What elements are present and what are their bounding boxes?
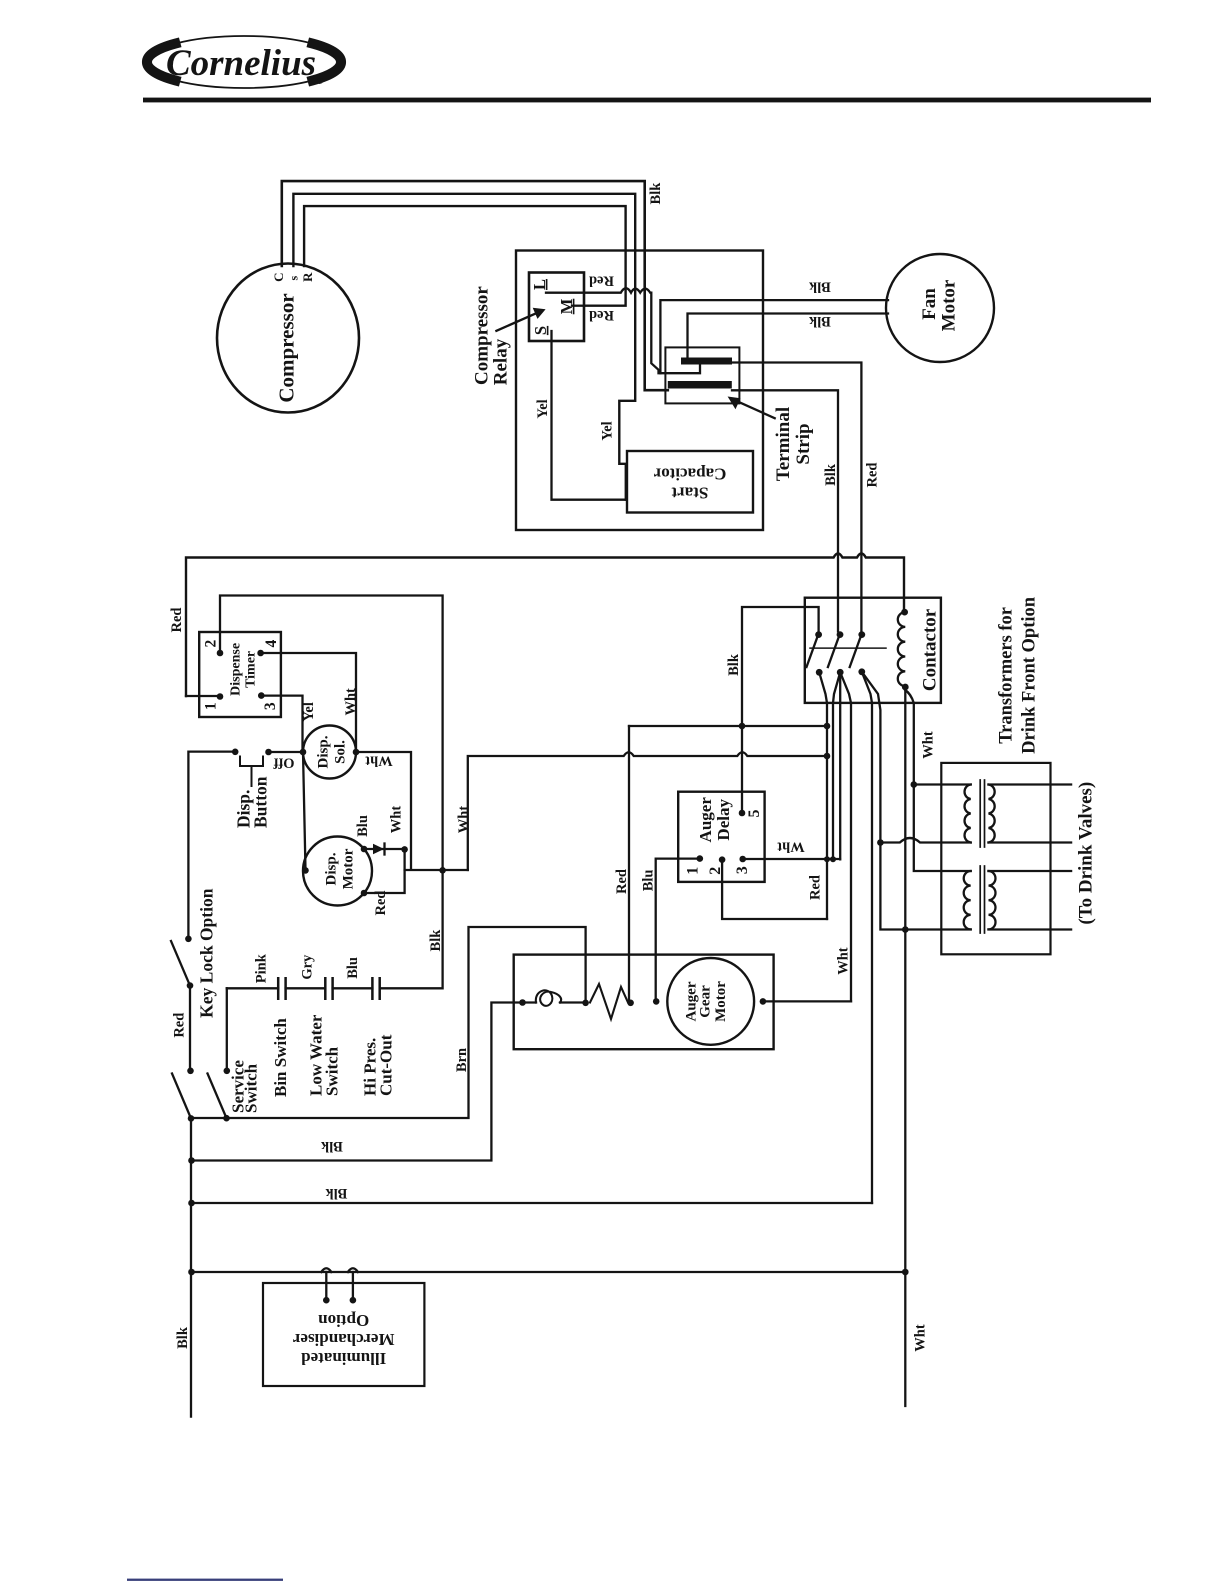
start capacitor box — [627, 451, 753, 513]
svg-text:Capacitor: Capacitor — [653, 464, 726, 483]
wire y726 horizontal — [629, 725, 827, 727]
svg-text:Button: Button — [251, 776, 271, 828]
node auger motor right — [760, 998, 767, 1005]
svg-text:Timer: Timer — [244, 651, 259, 688]
contactor linkage bar — [810, 647, 886, 649]
terminal strip upper bar — [681, 358, 732, 365]
svg-text:Strip: Strip — [793, 423, 814, 464]
wire terminal strip lower bar to contactor (Blk) — [732, 390, 838, 631]
node auger motor left — [653, 998, 660, 1005]
node disp motor bottom right — [361, 890, 368, 897]
node contactor bottom contact 3 — [858, 668, 865, 675]
node contactor bottom contact 1 — [816, 669, 823, 676]
disp sol — [303, 726, 356, 779]
node service switch top — [224, 1068, 231, 1075]
svg-text:Sol.: Sol. — [332, 740, 348, 764]
wire contact3 drop b to transformer2 bottom — [862, 672, 971, 930]
compressor — [217, 264, 359, 413]
svg-text:Yel: Yel — [600, 421, 616, 440]
transformer2 windings and core — [964, 866, 996, 933]
node y726 x827 — [824, 723, 831, 730]
svg-text:Blu: Blu — [345, 957, 361, 979]
node transformer1 top lead — [911, 781, 918, 788]
wire disp button right to sol — [269, 751, 304, 753]
switch chain wire with capacitor gaps — [227, 987, 373, 989]
svg-text:3: 3 — [734, 866, 751, 874]
wire timer 3 to disp sol left — [261, 696, 302, 752]
wire Wht rail (sol area to contactor) — [468, 752, 827, 870]
svg-text:S: S — [531, 326, 550, 335]
relay M terminal bar — [572, 305, 584, 307]
wire left rail bottom — [190, 1118, 192, 1416]
node lamp stub left — [323, 1297, 330, 1304]
contactor blade 2 — [828, 638, 839, 667]
svg-text:Motor: Motor — [939, 279, 960, 331]
svg-text:2: 2 — [202, 639, 219, 647]
svg-text:Blk: Blk — [726, 653, 742, 676]
left rail key lock switch node top — [185, 936, 192, 943]
svg-text:Terminal: Terminal — [773, 407, 794, 481]
transformers box — [941, 763, 1050, 954]
node left switch top — [187, 1068, 194, 1075]
svg-text:Red: Red — [171, 1013, 187, 1038]
label Start Capacitor — [653, 464, 726, 502]
node timer 3 — [258, 692, 265, 699]
node T2 bottom lead junction — [902, 926, 909, 933]
svg-text:Contactor: Contactor — [920, 608, 941, 691]
node auger delay 5 — [739, 810, 746, 817]
svg-text:Compressor: Compressor — [471, 286, 492, 385]
svg-text:Blk: Blk — [428, 929, 444, 952]
svg-text:Start: Start — [671, 483, 708, 502]
wire fan motor upper (Blk) — [660, 300, 888, 373]
relay outline box — [516, 251, 763, 531]
svg-text:Illuminated: Illuminated — [301, 1349, 387, 1368]
svg-text:Dispense: Dispense — [228, 643, 243, 696]
header rule — [143, 98, 1151, 103]
node timer 4 — [257, 650, 264, 657]
wire compressor R loop to relay M — [304, 206, 625, 306]
wire disp sol left down to disp motor — [303, 752, 306, 870]
svg-text:Cornelius: Cornelius — [166, 43, 316, 84]
node timer 1 — [217, 693, 224, 700]
svg-text:Wht: Wht — [389, 806, 405, 834]
wire left rail middle — [189, 986, 191, 1071]
wire contact2 drop c to auger motor right — [840, 672, 851, 1001]
auger gear motor outline box — [514, 955, 774, 1050]
node left switch bottom — [188, 1115, 195, 1122]
svg-text:Wht: Wht — [913, 1324, 929, 1352]
svg-text:(To Drink Valves): (To Drink Valves) — [1075, 782, 1096, 925]
wire left rail to disp button — [188, 752, 235, 939]
svg-text:Wht: Wht — [456, 806, 472, 834]
svg-text:Red: Red — [373, 891, 389, 916]
svg-text:Yel: Yel — [535, 399, 551, 418]
wire compressor C loop to terminal strip lower bar — [282, 181, 668, 390]
wire timer 4 to disp sol right — [261, 653, 356, 752]
svg-text:5: 5 — [746, 810, 763, 818]
contactor blade 1 — [807, 638, 818, 667]
node service switch bottom — [223, 1115, 230, 1122]
node disp sol left — [300, 749, 307, 756]
node rail y1203 — [188, 1200, 195, 1207]
svg-text:Compressor: Compressor — [274, 293, 298, 402]
transformer2 secondary leads — [989, 871, 1072, 930]
bin switch capacitor — [278, 978, 285, 999]
svg-text:Motor: Motor — [340, 848, 356, 889]
heater zigzag — [590, 984, 628, 1019]
terminal strip lower bar — [668, 381, 732, 389]
svg-text:Motor: Motor — [713, 981, 729, 1022]
svg-text:2: 2 — [707, 867, 724, 875]
svg-text:Wht: Wht — [777, 838, 805, 854]
auger delay box — [678, 792, 764, 882]
key lock blade — [171, 941, 190, 986]
wire auger delay 2 loop (t2) — [722, 860, 827, 919]
svg-text:Drink Front Option: Drink Front Option — [1019, 596, 1039, 754]
node auger delay 2 — [719, 856, 726, 863]
node contactor bottom contact 2 — [837, 669, 844, 676]
svg-text:Disp.: Disp. — [315, 735, 331, 768]
svg-text:®: ® — [317, 76, 324, 86]
node rail y1160 — [188, 1157, 195, 1164]
Cornelius logo swoosh — [147, 36, 341, 88]
svg-text:Blk: Blk — [320, 1138, 343, 1154]
left switch blade — [172, 1074, 191, 1119]
svg-text:Wht: Wht — [365, 752, 393, 768]
contactor coil — [898, 612, 905, 686]
wire fuse middle to Brn to service switch — [192, 927, 586, 1118]
svg-text:Red: Red — [614, 869, 630, 894]
hi pres cut-out capacitor — [372, 978, 379, 999]
svg-text:Blu: Blu — [355, 815, 371, 837]
node motor junction — [401, 846, 408, 853]
node fuse right — [627, 1000, 634, 1007]
node coil top — [901, 609, 908, 616]
svg-text:4: 4 — [263, 639, 280, 647]
wire bottom rail y1203 (Blk) — [192, 1202, 873, 1204]
svg-text:C: C — [271, 273, 286, 282]
svg-text:Yel: Yel — [301, 702, 317, 721]
label Illuminated Merchandiser Option — [292, 1311, 394, 1368]
svg-text:Blk: Blk — [808, 313, 831, 329]
wire bottom rail y1272 — [192, 1271, 906, 1273]
transformer1 windings and core — [965, 780, 995, 847]
svg-text:Switch: Switch — [322, 1046, 341, 1096]
svg-text:Option: Option — [318, 1311, 370, 1330]
transformer1 secondary leads — [989, 785, 1072, 843]
contactor box — [805, 598, 941, 703]
wire auger delay 1 to auger motor left (Blu) — [656, 859, 700, 1002]
node auger delay 1 — [697, 855, 704, 862]
svg-text:Merchandiser: Merchandiser — [292, 1330, 394, 1349]
wire auger motor right — [763, 1000, 851, 1002]
svg-text:Pink: Pink — [254, 953, 270, 983]
svg-text:Red: Red — [169, 608, 185, 633]
auger gear motor — [667, 958, 754, 1045]
svg-text:Key Lock Option: Key Lock Option — [197, 888, 217, 1018]
node junction x442 — [439, 867, 446, 874]
svg-text:Wht: Wht — [921, 731, 937, 759]
node t3 x833 — [830, 856, 836, 862]
contactor blade 3 — [850, 638, 861, 667]
wire contact2 drop b — [839, 672, 841, 859]
footer blue line — [127, 1579, 283, 1581]
terminal strip box — [665, 347, 739, 403]
node disp button left — [232, 749, 239, 756]
svg-text:Disp.: Disp. — [323, 852, 339, 885]
wire contact3 drop a to bottom rail — [862, 672, 872, 1203]
svg-text:Gear: Gear — [698, 985, 714, 1018]
svg-text:Blk: Blk — [648, 182, 664, 205]
thermal protector symbol — [373, 844, 385, 855]
wire auger delay 3 (t3) — [743, 858, 840, 860]
wire compressor S loop to start capacitor — [293, 194, 635, 500]
node contactor top contact 1 — [815, 631, 822, 638]
svg-text:Blk: Blk — [823, 463, 839, 486]
compressor relay box — [529, 273, 584, 342]
wire relay S to start capacitor (Yel) — [552, 331, 627, 500]
node timer 2 — [217, 650, 224, 657]
node disp motor top right — [361, 846, 368, 853]
svg-text:Bin Switch: Bin Switch — [271, 1018, 290, 1097]
svg-text:1: 1 — [202, 702, 219, 710]
svg-text:s: s — [287, 276, 301, 281]
wire Red rail top (left rail to contactor coil) — [186, 554, 904, 697]
wire transformer1 top lead — [914, 783, 971, 785]
svg-text:Brn: Brn — [454, 1048, 470, 1072]
svg-text:1: 1 — [685, 867, 702, 875]
svg-text:Auger: Auger — [696, 797, 715, 843]
svg-text:R: R — [300, 272, 315, 282]
wire fuse left to left rail (Blk) — [192, 1003, 523, 1161]
wire relay L to terminal strip (hops over 3 wires) — [546, 288, 700, 373]
node disp sol right — [353, 749, 360, 756]
wire auger delay 5 riser to contactor left contact — [742, 607, 819, 813]
arrow to compressor relay — [496, 308, 545, 331]
dispense timer box — [199, 632, 281, 717]
node contactor top contact 2 — [837, 631, 844, 638]
node auger delay 3 — [739, 856, 746, 863]
left rail key lock switch node bottom — [187, 982, 194, 989]
svg-text:Switch: Switch — [242, 1063, 261, 1113]
svg-text:Gry: Gry — [299, 954, 315, 980]
wire terminal strip upper bar to contactor (Red) — [732, 363, 861, 632]
wire disp motor top right — [364, 848, 405, 850]
wire motor loop right side — [364, 849, 405, 893]
svg-text:M: M — [557, 298, 576, 314]
node fuse left — [519, 999, 526, 1006]
svg-text:Blu: Blu — [640, 870, 656, 892]
lamp stub left — [321, 1268, 331, 1300]
wire timer terminal 1 to left rail — [186, 695, 220, 697]
wire transformer1 bottom lead (hop over two wires) — [880, 838, 970, 843]
wire Wht junction horizontal — [405, 869, 468, 871]
node y726 x742 — [739, 723, 746, 730]
svg-text:Off: Off — [273, 754, 294, 770]
node contactor top contact 3 — [858, 631, 865, 638]
wire disp sol right to junction (Wht) — [356, 752, 411, 869]
svg-text:Red: Red — [589, 307, 614, 323]
svg-text:Delay: Delay — [714, 799, 733, 841]
illuminated merchandiser option box — [263, 1283, 424, 1386]
node wht rail bottom junction — [902, 1269, 909, 1276]
service switch riser — [226, 988, 228, 1071]
node disp button right — [265, 749, 272, 756]
node lamp stub right — [350, 1297, 357, 1304]
wire coil to transformer tops — [905, 690, 970, 871]
svg-text:Cut-Out: Cut-Out — [377, 1034, 396, 1096]
low water switch capacitor — [325, 978, 332, 999]
node coil bottom — [902, 684, 909, 691]
svg-text:Blk: Blk — [175, 1326, 191, 1349]
svg-text:Red: Red — [808, 875, 824, 900]
node t3 x827 — [824, 856, 830, 862]
svg-text:Red: Red — [589, 272, 614, 288]
svg-text:Transformers for: Transformers for — [996, 607, 1016, 744]
node transformer1 bottom lead junction — [877, 839, 884, 846]
wire contact1 drop — [819, 672, 827, 919]
wire timer 2 up and right, long drop to switch chain — [220, 596, 443, 989]
svg-text:Fan: Fan — [919, 288, 940, 320]
svg-text:3: 3 — [262, 702, 279, 710]
svg-text:Blk: Blk — [325, 1185, 348, 1201]
wire Red drop to auger gear motor — [628, 726, 630, 1003]
overload curl symbol — [523, 1001, 586, 1003]
node fuse middle — [582, 1000, 589, 1007]
node rail y1272 — [188, 1269, 195, 1276]
disp motor — [303, 837, 372, 906]
wire fan motor lower (Blk) — [688, 314, 889, 358]
node disp motor left — [302, 867, 309, 874]
service switch blade — [208, 1074, 227, 1119]
svg-text:Wht: Wht — [835, 947, 851, 975]
arrow to terminal strip — [728, 397, 775, 419]
svg-text:Wht: Wht — [343, 688, 359, 716]
fan motor — [886, 254, 994, 362]
disp button actuator — [240, 757, 263, 787]
svg-text:L: L — [530, 279, 549, 290]
svg-text:Red: Red — [865, 463, 881, 488]
lamp stub right — [348, 1268, 358, 1300]
wire coil bottom drop (Wht long) — [904, 687, 906, 1406]
wire contact2 drop a — [833, 672, 840, 859]
svg-text:Blk: Blk — [808, 279, 831, 295]
node wht rail x827 — [824, 753, 831, 760]
svg-text:Relay: Relay — [491, 338, 512, 385]
